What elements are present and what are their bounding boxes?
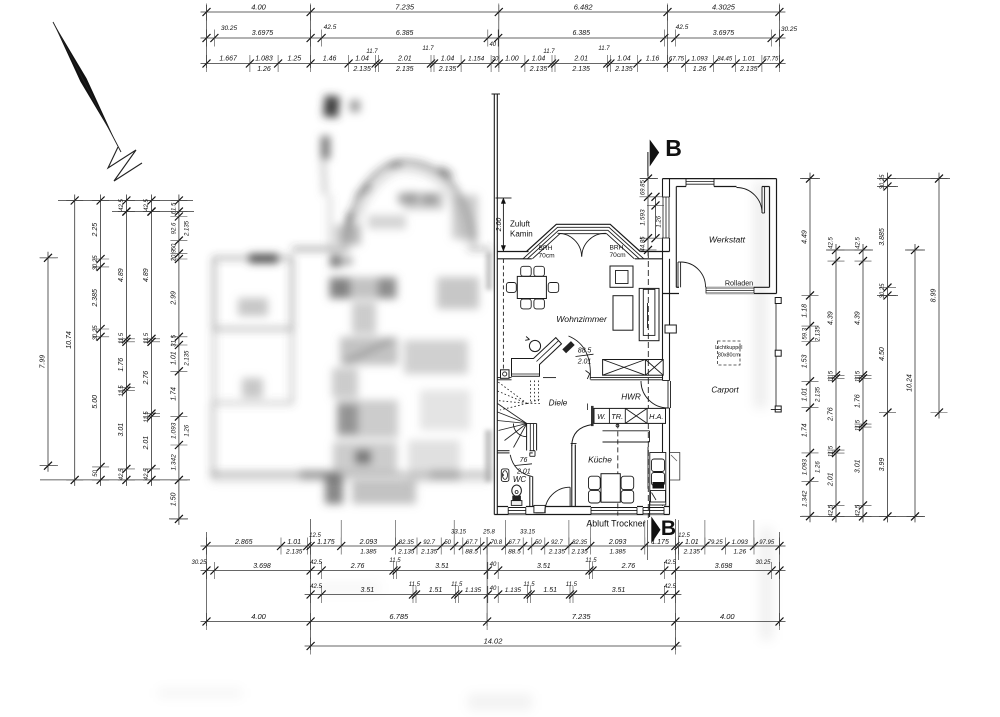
svg-text:67.7: 67.7 [466,540,478,546]
svg-text:4.50: 4.50 [879,347,886,361]
svg-text:40: 40 [490,562,497,568]
svg-text:2.135: 2.135 [548,549,566,556]
svg-text:1.175: 1.175 [317,539,335,546]
svg-text:Wohnzimmer: Wohnzimmer [556,314,608,324]
svg-text:31.5: 31.5 [171,334,177,346]
svg-text:2.76: 2.76 [350,563,365,570]
svg-text:2.99: 2.99 [170,291,177,306]
svg-text:W.: W. [597,412,606,421]
svg-text:2.01: 2.01 [573,56,588,63]
svg-text:1.093: 1.093 [802,459,809,476]
svg-text:3.698: 3.698 [253,563,271,570]
svg-text:1.01: 1.01 [802,388,809,402]
svg-text:1.593: 1.593 [640,209,647,226]
svg-text:6.785: 6.785 [389,612,409,621]
svg-text:11.5: 11.5 [119,332,125,344]
svg-text:1.16: 1.16 [646,56,660,63]
svg-text:80x80cm: 80x80cm [718,353,740,359]
svg-text:5.00: 5.00 [92,395,99,409]
svg-text:3.01: 3.01 [855,459,862,473]
svg-text:30.25: 30.25 [93,255,99,271]
svg-text:2.01: 2.01 [828,472,835,487]
svg-text:2.385: 2.385 [92,289,99,308]
svg-text:11.5: 11.5 [409,582,421,588]
svg-text:11.7: 11.7 [366,49,378,55]
svg-text:92.7: 92.7 [423,540,435,546]
svg-text:BRH: BRH [610,245,624,252]
svg-text:50: 50 [535,540,542,546]
svg-text:4.3025: 4.3025 [712,3,736,12]
svg-text:11.5: 11.5 [856,419,862,431]
svg-text:1.093: 1.093 [732,539,749,546]
svg-text:1.26: 1.26 [733,549,746,556]
svg-text:11.5: 11.5 [144,332,150,344]
svg-text:2.135: 2.135 [185,350,191,367]
svg-text:2.135: 2.135 [816,386,822,403]
svg-text:Zuluft: Zuluft [510,220,531,229]
svg-text:3.51: 3.51 [435,563,449,570]
svg-text:B: B [665,135,682,161]
svg-text:1.135: 1.135 [465,587,482,594]
svg-text:42.5: 42.5 [310,560,322,566]
svg-text:2.135: 2.135 [570,549,588,556]
svg-text:42.5: 42.5 [829,237,835,249]
svg-text:30.25: 30.25 [93,325,99,341]
svg-text:69.85: 69.85 [641,180,647,196]
svg-text:97.95: 97.95 [759,540,775,546]
svg-text:40: 40 [490,586,497,592]
svg-text:1.04: 1.04 [355,56,369,63]
svg-text:2.135: 2.135 [816,326,822,343]
svg-text:20.9: 20.9 [171,249,177,262]
svg-text:2.135: 2.135 [683,549,701,556]
svg-text:2.865: 2.865 [234,539,253,546]
svg-text:1.135: 1.135 [505,587,522,594]
svg-text:3.885: 3.885 [879,228,886,246]
svg-text:2.76: 2.76 [621,563,636,570]
svg-text:Küche: Küche [588,455,612,465]
svg-text:6.385: 6.385 [573,30,591,37]
svg-text:33.15: 33.15 [520,530,536,536]
svg-text:4.89: 4.89 [143,268,150,282]
svg-text:12.5: 12.5 [678,533,690,539]
svg-text:3.01: 3.01 [118,423,125,437]
svg-text:2.01: 2.01 [577,359,592,366]
svg-text:42.5: 42.5 [324,24,337,31]
svg-text:1.74: 1.74 [802,423,809,437]
svg-text:14.02: 14.02 [484,637,504,646]
svg-text:2.135: 2.135 [571,66,590,73]
svg-text:3.51: 3.51 [537,563,551,570]
svg-text:3.6975: 3.6975 [252,30,274,37]
svg-text:1.093: 1.093 [170,422,177,439]
svg-text:2.135: 2.135 [285,549,303,556]
svg-text:1.50: 1.50 [170,492,177,506]
svg-text:1.26: 1.26 [657,215,663,227]
svg-text:2.01: 2.01 [397,56,412,63]
svg-text:67.75: 67.75 [763,57,779,63]
svg-text:42.5: 42.5 [829,504,835,516]
svg-text:1.154: 1.154 [468,56,485,63]
svg-text:3.51: 3.51 [612,587,626,594]
svg-text:1.76: 1.76 [855,394,862,408]
svg-text:6.482: 6.482 [574,3,594,12]
svg-text:67.75: 67.75 [669,57,685,63]
svg-text:2.135: 2.135 [529,66,548,73]
svg-text:42.5: 42.5 [310,584,322,590]
svg-text:79.25: 79.25 [708,540,724,546]
svg-text:25.8: 25.8 [482,530,495,536]
svg-text:3.51: 3.51 [360,587,374,594]
svg-text:2.093: 2.093 [608,539,627,546]
svg-text:50: 50 [171,243,177,250]
svg-text:1.04: 1.04 [617,56,631,63]
svg-text:1.083: 1.083 [255,56,273,63]
svg-text:42.5: 42.5 [856,504,862,516]
svg-text:70cm: 70cm [610,252,627,259]
svg-text:Carport: Carport [711,386,739,395]
svg-text:1.51: 1.51 [543,587,557,594]
svg-text:1.04: 1.04 [532,56,546,63]
svg-text:1.175: 1.175 [651,539,669,546]
svg-text:7.235: 7.235 [395,3,415,12]
svg-text:2.135: 2.135 [395,66,414,73]
svg-text:11.5: 11.5 [451,582,463,588]
svg-text:42.5: 42.5 [676,24,689,31]
svg-text:76: 76 [520,457,528,464]
svg-text:1.25: 1.25 [287,56,301,63]
svg-text:BRH: BRH [539,245,553,252]
svg-text:1.01: 1.01 [170,351,177,365]
svg-text:11.5: 11.5 [144,411,150,423]
svg-text:1.18: 1.18 [802,304,809,318]
svg-text:1.76: 1.76 [118,358,125,372]
svg-text:2.135: 2.135 [420,549,438,556]
svg-text:10.24: 10.24 [907,374,914,392]
svg-text:11.5: 11.5 [523,582,535,588]
svg-text:30: 30 [492,57,499,63]
svg-text:59.3: 59.3 [803,327,809,339]
svg-text:1.01: 1.01 [742,56,755,63]
svg-text:44.85: 44.85 [641,236,647,252]
svg-text:HWR: HWR [621,393,641,402]
svg-text:2.135: 2.135 [352,66,371,73]
svg-text:4.39: 4.39 [828,311,835,325]
svg-text:82.35: 82.35 [572,540,588,546]
svg-text:11.5: 11.5 [829,445,835,457]
svg-text:1.01: 1.01 [287,539,301,546]
svg-text:50: 50 [444,540,451,546]
svg-text:88.5: 88.5 [578,348,592,355]
svg-text:40: 40 [489,42,496,48]
svg-text:11.7: 11.7 [598,46,610,52]
svg-text:1.53: 1.53 [802,354,809,368]
svg-text:30.25: 30.25 [191,560,207,566]
svg-text:4.49: 4.49 [802,230,809,244]
svg-text:8.99: 8.99 [931,289,938,303]
svg-text:11.5: 11.5 [829,370,835,382]
svg-text:1.74: 1.74 [170,387,177,401]
svg-text:70cm: 70cm [539,253,556,260]
svg-text:4.89: 4.89 [118,268,125,282]
svg-text:3.698: 3.698 [715,563,733,570]
svg-text:1.667: 1.667 [219,56,238,63]
svg-text:2.135: 2.135 [438,66,457,73]
svg-text:1.26: 1.26 [693,66,707,73]
svg-text:42.5: 42.5 [664,560,676,566]
svg-text:1.342: 1.342 [802,490,809,507]
svg-text:11.5: 11.5 [389,558,401,564]
svg-text:2.135: 2.135 [185,220,191,237]
svg-text:1.46: 1.46 [323,56,337,63]
svg-text:Lichtkuppel: Lichtkuppel [715,345,742,351]
svg-text:88.5: 88.5 [508,549,521,556]
svg-text:H.A.: H.A. [649,412,663,421]
svg-text:1.00: 1.00 [505,56,519,63]
svg-text:WC: WC [513,475,527,484]
svg-text:30.25: 30.25 [880,283,886,299]
svg-text:1.385: 1.385 [360,549,377,556]
svg-text:1.26: 1.26 [185,424,191,436]
svg-text:30.25: 30.25 [221,25,238,32]
svg-text:1.342: 1.342 [170,454,177,471]
svg-text:88.5: 88.5 [465,549,478,556]
svg-text:10.74: 10.74 [66,331,73,349]
svg-text:42.5: 42.5 [144,468,150,480]
svg-text:2.76: 2.76 [143,371,150,386]
svg-text:11.5: 11.5 [856,370,862,382]
svg-text:Abluft Trockner: Abluft Trockner [586,519,645,529]
svg-text:3.6975: 3.6975 [713,30,735,37]
svg-text:92.6: 92.6 [171,222,177,234]
svg-text:2.01: 2.01 [143,436,150,451]
svg-text:2.00: 2.00 [496,218,503,233]
svg-text:1.51: 1.51 [429,587,443,594]
svg-text:Diele: Diele [549,399,568,408]
svg-text:11.5: 11.5 [119,385,125,397]
svg-text:84.45: 84.45 [717,57,733,63]
svg-text:B: B [661,517,676,540]
svg-text:50: 50 [93,469,99,476]
svg-text:3.99: 3.99 [879,458,886,472]
svg-text:4.00: 4.00 [251,612,266,621]
svg-text:11.5: 11.5 [566,582,578,588]
svg-text:92.7: 92.7 [551,540,563,546]
svg-text:2.135: 2.135 [739,66,758,73]
svg-text:30.25: 30.25 [880,174,886,190]
svg-text:Kamin: Kamin [510,230,533,239]
svg-text:11.7: 11.7 [422,46,434,52]
svg-text:1.385: 1.385 [609,549,626,556]
svg-text:2.25: 2.25 [92,223,99,238]
svg-text:Rolladen: Rolladen [725,279,753,288]
svg-text:30.25: 30.25 [781,26,798,33]
svg-text:67.7: 67.7 [509,540,521,546]
svg-text:30.25: 30.25 [755,560,771,566]
svg-text:2.135: 2.135 [614,66,633,73]
svg-text:1.04: 1.04 [441,56,455,63]
svg-text:1.093: 1.093 [691,56,708,63]
svg-text:42.5: 42.5 [856,237,862,249]
svg-text:42.5: 42.5 [119,468,125,480]
svg-text:2.135: 2.135 [397,549,415,556]
svg-text:4.00: 4.00 [251,3,266,12]
svg-text:33.15: 33.15 [451,530,467,536]
svg-text:70.8: 70.8 [490,540,502,546]
svg-text:82.35: 82.35 [399,540,415,546]
svg-text:12.5: 12.5 [309,533,321,539]
svg-text:Werkstatt: Werkstatt [709,235,746,245]
svg-text:2.093: 2.093 [359,539,378,546]
svg-text:2.76: 2.76 [828,407,835,422]
svg-text:11.7: 11.7 [543,49,555,55]
svg-text:1.01: 1.01 [685,539,699,546]
svg-text:4.00: 4.00 [720,612,735,621]
svg-text:7.235: 7.235 [572,612,592,621]
svg-text:1.26: 1.26 [257,66,271,73]
svg-text:6.385: 6.385 [396,30,414,37]
svg-text:TR.: TR. [611,412,623,421]
svg-text:42.5: 42.5 [664,584,676,590]
svg-text:7.99: 7.99 [40,355,47,369]
svg-text:1.26: 1.26 [816,461,822,473]
svg-text:4.39: 4.39 [855,311,862,325]
svg-text:61.5: 61.5 [171,202,177,214]
svg-text:11.5: 11.5 [585,558,597,564]
